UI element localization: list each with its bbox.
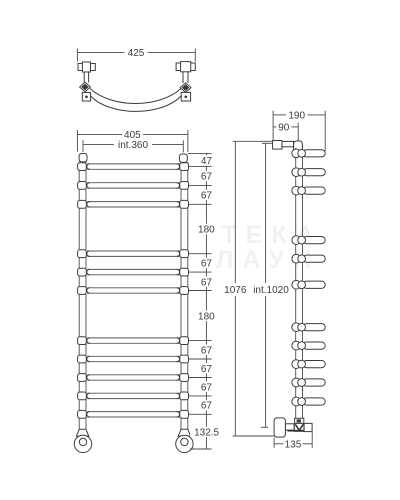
side rung 8: [292, 341, 325, 350]
front right tube cap: [179, 154, 187, 162]
front left vertical tube: [79, 162, 86, 431]
front rung 5: [78, 268, 189, 276]
svg-text:47: 47: [201, 156, 213, 167]
plan left mount plate: [82, 92, 90, 101]
dim 1076 top tick: [233, 140, 273, 142]
front dim chain tick 2: [189, 184, 212, 186]
side valve dark base: [288, 430, 304, 432]
dim 135 extension left: [273, 438, 275, 448]
side vertical tube: [296, 148, 303, 418]
dim 425 extension line left: [76, 49, 78, 62]
front rung 10: [78, 392, 189, 400]
plan left wall bracket: [78, 62, 95, 72]
side top rail stem: [282, 141, 294, 146]
side rung 5: [292, 254, 325, 263]
dim int.1020 line: [265, 143, 267, 427]
front dim chain tick 12: [190, 448, 212, 450]
dim 405 line: [77, 133, 187, 135]
front dim chain tick 7: [189, 340, 212, 342]
front chain label 180 at y 315.85: [196, 311, 217, 323]
front rung 3: [78, 200, 189, 208]
svg-text:ТЕКА: ТЕКА: [221, 221, 322, 249]
side rung 6: [292, 280, 325, 289]
svg-text:67: 67: [201, 401, 213, 412]
side rung 1: [292, 149, 325, 158]
front chain label 67 at y 176.0: [199, 171, 213, 183]
dim 90 extension right: [297, 123, 299, 141]
side wall union cylinder: [274, 418, 285, 437]
side rung 7: [292, 323, 325, 332]
svg-text:425: 425: [128, 48, 145, 59]
svg-text:int.360: int.360: [118, 140, 148, 151]
svg-text:67: 67: [201, 277, 213, 288]
front dim chain tick 5: [189, 271, 212, 273]
side valve nut: [295, 418, 304, 423]
front left tube cap: [79, 154, 87, 162]
svg-text:67: 67: [201, 259, 213, 270]
dim 190 line: [273, 114, 325, 116]
front dim chain tick 6: [189, 290, 212, 292]
front dim chain tick 3: [189, 203, 212, 205]
dim int.360 extension lines: [83, 140, 183, 152]
plan left swivel diamond: [80, 82, 91, 91]
side valve connector: [285, 424, 294, 430]
front dim chain tick 9: [189, 377, 212, 379]
front dim chain tick 10: [189, 395, 212, 397]
front dim chain tick 1: [189, 166, 212, 168]
front rung 6: [78, 287, 189, 295]
side rung 10: [292, 378, 325, 387]
side rung 4: [292, 236, 325, 245]
front chain label 67 at y 386.7: [199, 382, 213, 394]
plan right stem: [183, 72, 188, 83]
svg-text:1076: 1076: [224, 285, 247, 296]
side rung 2: [292, 168, 325, 177]
svg-text:67: 67: [201, 382, 213, 393]
front rung 2: [78, 182, 189, 190]
front rung 11: [78, 410, 189, 418]
top rail outer curve: [91, 96, 182, 111]
svg-text:67: 67: [201, 364, 213, 375]
front left wall flange: [74, 435, 91, 452]
front chain label 180 at y 229.0: [196, 224, 217, 236]
front right vertical tube: [181, 162, 188, 431]
dim 190 extension left: [272, 111, 274, 141]
front right foot flare: [178, 429, 191, 436]
top rail inner curve: [90, 89, 181, 104]
front left foot flare: [76, 429, 88, 436]
front chain label 67 at y 263.05: [199, 258, 213, 270]
svg-text:67: 67: [201, 172, 213, 183]
side wall bracket: [273, 141, 282, 150]
dim 135 line: [274, 443, 312, 445]
svg-text:67: 67: [201, 190, 213, 201]
front chain label 67 at y 405.1: [199, 400, 213, 412]
dim 425 extension line right: [194, 49, 196, 62]
side rung 11: [292, 397, 325, 406]
dim 1076 bottom tick: [233, 435, 274, 437]
dim int.1020 bottom tick: [261, 426, 268, 428]
front right wall flange: [176, 435, 193, 452]
svg-text:190: 190: [288, 111, 305, 122]
dim 190 extension right: [324, 111, 326, 152]
svg-text:135: 135: [285, 439, 302, 450]
front rung 8: [78, 355, 189, 363]
front rung 7: [78, 337, 189, 345]
side valve outlet right: [304, 423, 312, 431]
side rung 3: [292, 186, 325, 195]
front chain label 67 at y 368.25: [199, 363, 213, 375]
plan right mount plate: [181, 92, 190, 101]
front dim chain tick 11: [189, 413, 212, 415]
dim 135 extension right: [311, 432, 313, 448]
front chain label 67 at y 194.85: [199, 190, 213, 202]
front chain label 47 at y 160.4: [199, 155, 213, 167]
svg-text:90: 90: [278, 123, 290, 134]
plan right swivel diamond: [180, 83, 191, 92]
front chain label 67 at y 281.75: [199, 277, 213, 289]
svg-text:180: 180: [198, 311, 215, 322]
side valve body: [294, 423, 304, 431]
plan left stem: [84, 72, 88, 83]
front chain label 132.5 at y 431.9: [190, 427, 223, 439]
front dim chain tick 4: [189, 253, 212, 255]
svg-text:67: 67: [201, 345, 213, 356]
dim 90 line: [273, 126, 298, 128]
front rung 4: [78, 250, 189, 258]
svg-text:int.1020: int.1020: [253, 285, 289, 296]
front dim chain line: [205, 153, 207, 449]
front dim chain tick 0: [188, 152, 212, 154]
side tube elbow: [294, 141, 303, 151]
front chain label 67 at y 349.8: [199, 345, 213, 357]
plan right wall bracket: [176, 62, 195, 72]
side rung 9: [292, 360, 325, 369]
dim 425 line: [77, 52, 124, 54]
front rung 9: [78, 374, 189, 382]
front dim chain tick 8: [189, 358, 212, 360]
dim int.360 line: [83, 143, 183, 145]
svg-text:180: 180: [198, 225, 215, 236]
svg-text:132.5: 132.5: [194, 428, 219, 439]
front rung 1: [78, 163, 189, 171]
dim 405 extension lines: [77, 130, 187, 152]
dim 1076 line: [234, 141, 236, 436]
dim int.1020 top tick: [262, 142, 273, 144]
